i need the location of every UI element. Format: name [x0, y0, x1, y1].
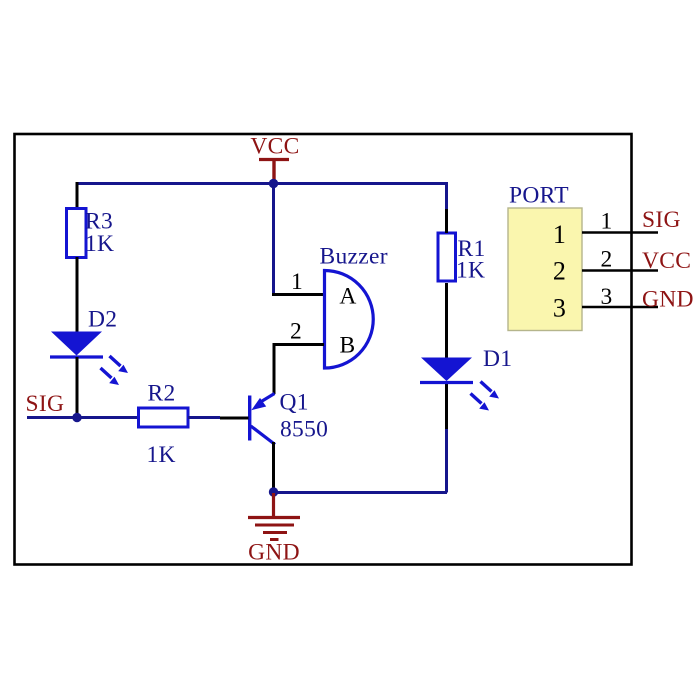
- wire R2 to Q1 base (navy): [188, 416, 220, 419]
- svg-text:2: 2: [553, 257, 566, 286]
- svg-text:B: B: [340, 333, 356, 359]
- port pin 3 line: [582, 306, 658, 309]
- wire Q1 collector to ground node: [272, 442, 275, 492]
- transistor Q1: [250, 394, 275, 445]
- wire SIG: [27, 416, 139, 419]
- wire buzzer pin 2 to Q1 emitter: [274, 345, 324, 395]
- led D1: [420, 358, 499, 411]
- wire D2 to SIG node: [76, 357, 79, 418]
- wire R1 top pin: [445, 209, 448, 233]
- wire VCC rail: [77, 182, 447, 185]
- svg-text:PORT: PORT: [509, 183, 569, 209]
- wire Q1 base pin: [220, 417, 249, 420]
- svg-text:8550: 8550: [280, 417, 328, 443]
- svg-text:1K: 1K: [147, 442, 176, 468]
- svg-text:GND: GND: [642, 287, 694, 313]
- wire R1 to D1: [445, 283, 448, 358]
- wire R3 top pin: [76, 182, 79, 209]
- svg-text:1K: 1K: [85, 231, 114, 257]
- svg-text:R2: R2: [148, 381, 176, 407]
- resistor R1: [438, 233, 456, 281]
- svg-text:1: 1: [553, 220, 566, 249]
- resistor R2: [139, 408, 189, 427]
- junction SIG node: [72, 413, 81, 422]
- wire D1 cathode pin: [445, 383, 448, 429]
- svg-text:3: 3: [600, 284, 612, 310]
- svg-text:GND: GND: [248, 540, 300, 566]
- wire R3 to D2: [76, 257, 79, 332]
- junction ground node: [269, 487, 278, 496]
- ground: [248, 493, 300, 540]
- svg-text:D1: D1: [483, 346, 512, 372]
- svg-text:A: A: [339, 284, 356, 310]
- svg-text:Buzzer: Buzzer: [320, 244, 388, 270]
- connector PORT: [508, 208, 582, 331]
- svg-text:VCC: VCC: [250, 134, 299, 160]
- led D2: [50, 332, 128, 386]
- svg-text:Q1: Q1: [280, 390, 309, 416]
- svg-text:SIG: SIG: [642, 207, 681, 233]
- svg-text:2: 2: [600, 247, 612, 273]
- port pin 1 line: [582, 231, 658, 234]
- svg-text:D2: D2: [88, 307, 117, 333]
- svg-text:1: 1: [600, 209, 612, 235]
- port pin 2 line: [582, 269, 658, 272]
- svg-text:2: 2: [290, 319, 302, 345]
- power symbol VCC: [250, 134, 299, 183]
- svg-text:SIG: SIG: [26, 391, 65, 417]
- wire D1 cathode to ground rail: [445, 429, 448, 493]
- wire buzzer pin 1: [272, 293, 324, 296]
- svg-text:VCC: VCC: [642, 248, 691, 274]
- resistor R3: [67, 209, 87, 258]
- svg-text:1: 1: [291, 269, 303, 295]
- buzzer LS1: [325, 271, 374, 369]
- svg-text:3: 3: [553, 294, 566, 323]
- wire VCC junction to buzzer pin 1: [272, 184, 275, 295]
- wire VCC rail corner to R1 (navy): [445, 182, 448, 209]
- svg-text:1K: 1K: [456, 258, 485, 284]
- wire ground rail: [274, 491, 448, 494]
- junction VCC node: [269, 179, 278, 188]
